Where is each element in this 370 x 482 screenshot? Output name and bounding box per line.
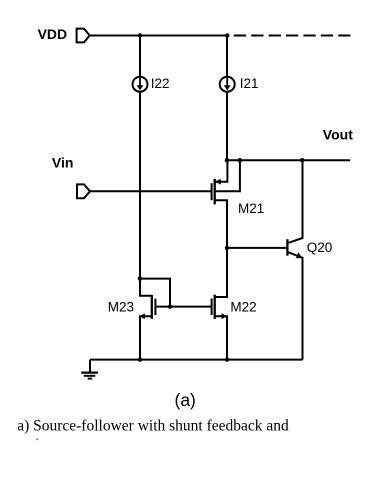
svg-text:Vout: Vout: [323, 127, 353, 143]
svg-text:Vin: Vin: [52, 155, 74, 171]
svg-text:M23: M23: [108, 300, 134, 315]
svg-text:M22: M22: [230, 300, 256, 315]
svg-text:I21: I21: [240, 76, 259, 91]
svg-text:(a): (a): [175, 390, 196, 410]
svg-text:I22: I22: [151, 76, 170, 91]
svg-text:Q20: Q20: [307, 240, 333, 255]
svg-text:a) Source-follower with shunt: a) Source-follower with shunt feedback a…: [17, 417, 289, 434]
svg-text:M21: M21: [238, 201, 264, 216]
svg-text:VDD: VDD: [38, 26, 68, 42]
